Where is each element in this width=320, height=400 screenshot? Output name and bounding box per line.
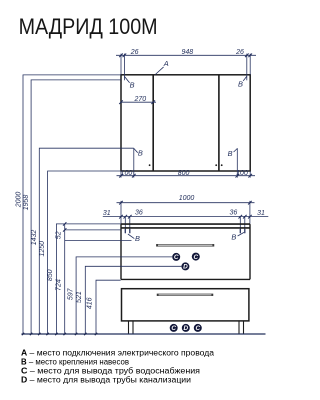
hanger ext left a <box>124 216 126 233</box>
svg-text:850: 850 <box>47 269 54 281</box>
svg-text:МАДРИД 100М: МАДРИД 100М <box>19 14 158 39</box>
dim line top <box>116 54 256 56</box>
node C circle 2 <box>192 253 200 261</box>
svg-text:D – место для вывода трубы кан: D – место для вывода трубы канализации <box>21 376 191 385</box>
leader B top-right <box>243 76 247 81</box>
vanity countertop top line <box>121 223 250 225</box>
tick <box>239 215 243 219</box>
leader A <box>155 67 163 75</box>
node B bottom-left <box>134 148 143 157</box>
svg-text:1958: 1958 <box>23 195 30 211</box>
tick 52 bottom <box>63 228 66 231</box>
leg right inner <box>238 321 240 334</box>
svg-text:D: D <box>183 325 188 332</box>
vanity right side <box>249 224 251 279</box>
svg-text:C: C <box>171 325 176 332</box>
tick <box>132 174 136 178</box>
node C circle bottom-right <box>194 324 202 332</box>
height line 597 <box>76 257 172 334</box>
extension left corner <box>120 171 122 178</box>
tick <box>119 174 123 178</box>
svg-text:B: B <box>231 233 236 242</box>
svg-text:C: C <box>195 325 200 332</box>
door handle dot 2 <box>215 164 217 166</box>
hanger extension left <box>133 148 135 177</box>
dim line 270 <box>121 101 156 103</box>
svg-text:36: 36 <box>135 209 143 216</box>
svg-text:C: C <box>174 254 179 261</box>
tick <box>248 201 252 205</box>
svg-text:521: 521 <box>76 291 83 303</box>
hanger mark right pair <box>239 229 241 233</box>
svg-text:1000: 1000 <box>179 195 195 202</box>
vanity left side <box>120 224 122 279</box>
dim line 31-36 <box>103 215 268 217</box>
svg-text:B: B <box>135 234 140 243</box>
vanity bottom <box>121 278 250 280</box>
leader B bottom-left <box>134 148 138 152</box>
third view handle <box>157 294 213 296</box>
height line 1250 <box>48 171 121 334</box>
third view box <box>122 289 249 321</box>
leg right outer <box>243 321 245 334</box>
leader B top-left <box>125 77 130 83</box>
leg left outer <box>128 321 130 334</box>
height line 1958 <box>31 80 121 334</box>
node B bottom-right <box>228 149 238 158</box>
line 52 offset <box>65 229 121 231</box>
svg-text:D: D <box>183 264 188 271</box>
node A label <box>155 59 169 74</box>
height line 724 with 52 offset <box>64 224 66 334</box>
leg left inner <box>132 321 134 334</box>
hanger extension right <box>236 148 238 177</box>
door handle dot 3 <box>221 164 223 166</box>
dim line 1000 <box>117 202 255 204</box>
node B vanity-right <box>231 232 244 241</box>
extension right corner <box>249 171 251 178</box>
svg-text:B – место крепления навесов: B – место крепления навесов <box>21 358 129 367</box>
baseline ticks <box>22 333 97 335</box>
svg-text:724: 724 <box>55 279 62 291</box>
tick <box>243 215 247 219</box>
mirror cabinet outline <box>121 75 250 171</box>
tick <box>151 100 155 104</box>
node C circle bottom-left <box>170 324 178 332</box>
svg-text:26: 26 <box>235 49 244 56</box>
svg-text:26: 26 <box>130 49 139 56</box>
extension vanity right <box>249 201 251 224</box>
hanger mark left pair <box>124 229 126 233</box>
height line 416 <box>96 280 121 334</box>
svg-text:270: 270 <box>134 96 147 103</box>
tick <box>248 215 252 219</box>
vanity handle end caps <box>156 244 158 246</box>
svg-text:100: 100 <box>236 170 248 177</box>
svg-text:597: 597 <box>68 287 75 300</box>
vanity handle <box>156 244 214 246</box>
svg-text:B: B <box>138 149 143 158</box>
node D circle bottom <box>182 324 190 332</box>
svg-text:A: A <box>163 59 169 68</box>
hanger ext right a <box>239 216 241 233</box>
hanger ext left b <box>129 216 131 233</box>
height line 850 <box>56 224 121 334</box>
svg-text:31: 31 <box>257 210 265 217</box>
tick <box>119 201 123 205</box>
node C circle 1 <box>172 253 180 261</box>
svg-text:B: B <box>130 80 135 89</box>
line 724 hanger <box>65 239 132 241</box>
height line 521 <box>85 266 181 334</box>
tick <box>119 54 123 58</box>
leader B vanity-left <box>128 234 134 239</box>
node D circle <box>181 262 189 270</box>
tick <box>236 174 240 178</box>
mirror door divider 1 <box>152 75 154 171</box>
tick <box>119 215 123 219</box>
svg-text:416: 416 <box>87 297 94 309</box>
hanger ext right b <box>244 216 246 233</box>
tick <box>248 174 252 178</box>
svg-text:1432: 1432 <box>31 230 38 246</box>
svg-text:B: B <box>228 149 233 158</box>
tick <box>248 54 252 58</box>
svg-text:1250: 1250 <box>39 241 46 257</box>
node B top-right <box>238 76 247 88</box>
svg-text:A – место подключения электрич: A – место подключения электрического про… <box>21 348 215 357</box>
tick 52 top <box>63 222 66 225</box>
extension left hanger <box>123 54 125 81</box>
node B vanity-left <box>128 234 140 243</box>
svg-text:C: C <box>193 254 198 261</box>
extension vanity left <box>120 201 122 224</box>
dim line bottom <box>117 175 256 177</box>
tick <box>119 100 123 104</box>
extension right hanger <box>246 54 248 81</box>
tick <box>128 215 132 219</box>
mirror door divider 2 <box>218 75 220 171</box>
svg-text:800: 800 <box>178 170 190 177</box>
vanity countertop bottom line <box>121 227 250 229</box>
height line 1432 <box>39 148 134 334</box>
svg-text:36: 36 <box>230 209 238 216</box>
extension left edge <box>120 54 122 75</box>
height line 2000 <box>23 75 121 334</box>
node B top-left <box>125 77 135 90</box>
tick <box>123 54 127 58</box>
door handle dot 1 <box>149 164 151 166</box>
svg-text:2000: 2000 <box>16 192 23 209</box>
svg-text:C – место для вывода труб водо: C – место для вывода труб водоснабжения <box>21 367 200 376</box>
leader B vanity-right <box>238 232 244 236</box>
extension right edge <box>249 54 251 75</box>
svg-text:948: 948 <box>181 49 193 56</box>
svg-text:100: 100 <box>121 170 133 177</box>
svg-text:52: 52 <box>55 231 62 239</box>
tick <box>245 54 249 58</box>
rotated height labels <box>16 192 94 310</box>
leader B bottom-right <box>234 149 238 153</box>
svg-text:B: B <box>238 79 243 88</box>
svg-text:31: 31 <box>103 210 111 217</box>
floor line <box>22 333 266 335</box>
tick <box>124 215 128 219</box>
